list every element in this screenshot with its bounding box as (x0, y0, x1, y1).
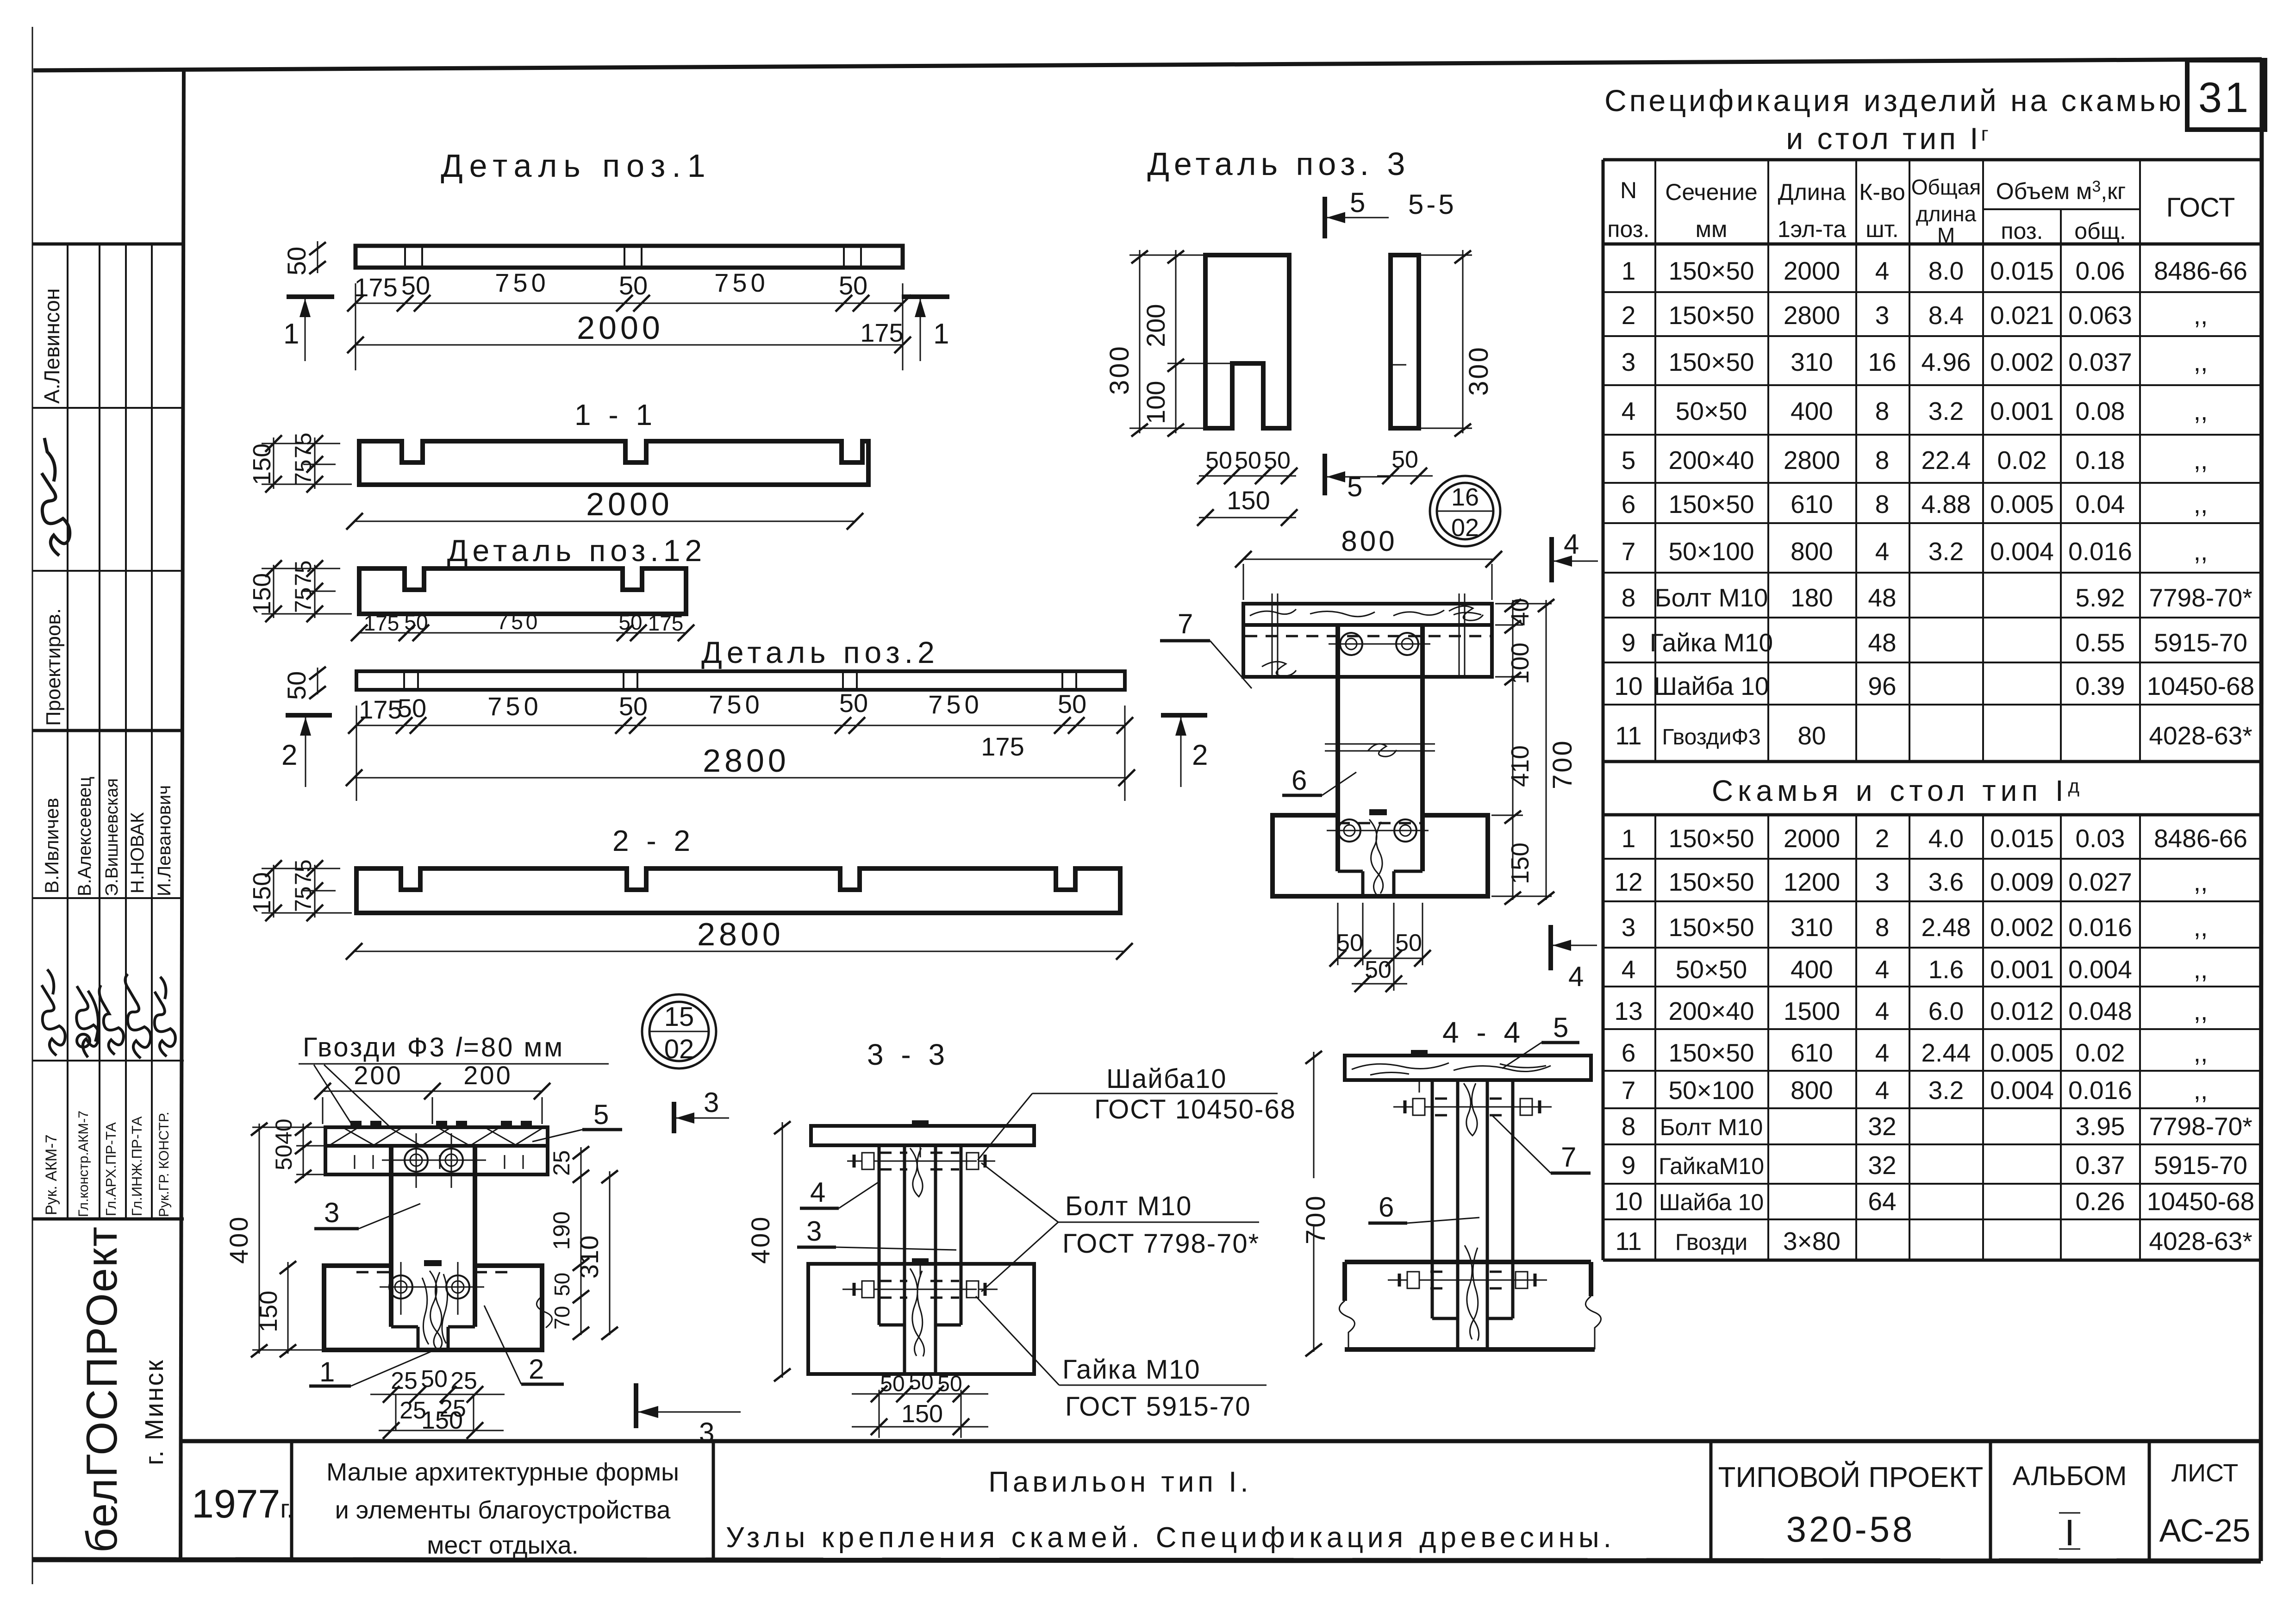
svg-text:3.2: 3.2 (1928, 1076, 1964, 1105)
svg-text:150: 150 (248, 443, 276, 485)
svg-text:10450-68: 10450-68 (2147, 1187, 2254, 1216)
svg-text:50: 50 (619, 271, 648, 300)
svg-text:4: 4 (1875, 1076, 1890, 1105)
svg-text:и элементы благоустройства: и элементы благоустройства (335, 1496, 671, 1524)
svg-text:0.002: 0.002 (1990, 348, 2054, 376)
ground beam 4-4 (1345, 1260, 1591, 1264)
svg-text:150×50: 150×50 (1668, 490, 1754, 518)
left dim 150 (273, 437, 275, 489)
svg-text:8486-66: 8486-66 (2154, 256, 2247, 285)
svg-text:4: 4 (1875, 537, 1890, 566)
dim 300 right of side view (1462, 250, 1464, 433)
sidebar column line x146 (67, 244, 69, 1219)
svg-text:15: 15 (664, 1002, 694, 1032)
svg-text:150: 150 (1506, 843, 1534, 884)
svg-text:Шайба 10: Шайба 10 (1653, 672, 1769, 700)
svg-text:0.004: 0.004 (1990, 1076, 2054, 1105)
dim line 2000 under 1-1 (355, 521, 855, 522)
bottom dims 50 50 50 under beam (1337, 903, 1339, 965)
svg-text:3: 3 (704, 1087, 719, 1118)
height dim 50 (317, 241, 318, 273)
svg-text:0.048: 0.048 (2068, 997, 2132, 1025)
svg-text:6: 6 (1291, 765, 1307, 796)
svg-text:3: 3 (699, 1417, 714, 1448)
svg-text:Узлы крепления скамей. Специф: Узлы крепления скамей. Спецификация древ… (726, 1522, 1616, 1554)
svg-text:48: 48 (1868, 628, 1896, 657)
svg-text:16: 16 (1868, 348, 1896, 376)
svg-text:750: 750 (495, 268, 549, 297)
plank pos.1 profile with notches (359, 441, 868, 485)
svg-text:2.44: 2.44 (1921, 1038, 1971, 1067)
svg-text:40: 40 (1506, 598, 1534, 626)
svg-text:0.021: 0.021 (1990, 301, 2054, 330)
svg-text:8: 8 (1875, 446, 1890, 475)
main frame top border (33, 59, 2262, 70)
svg-text:750: 750 (709, 690, 763, 719)
svg-text:Павильон тип I.: Павильон тип I. (988, 1466, 1252, 1498)
svg-text:0.26: 0.26 (2075, 1187, 2125, 1216)
svg-text:80: 80 (1797, 721, 1826, 750)
svg-text:75: 75 (290, 459, 316, 485)
svg-text:50: 50 (421, 1366, 448, 1393)
svg-text:Общая: Общая (1911, 175, 1981, 199)
upper bolt 3-3 (847, 1153, 995, 1169)
svg-text:0.005: 0.005 (1990, 1038, 2054, 1067)
left dim 400 3-3 (782, 1122, 783, 1378)
svg-text:3×80: 3×80 (1783, 1227, 1841, 1255)
svg-text:Малые архитектурные формы: Малые архитектурные формы (326, 1458, 679, 1486)
lower bolt circles node (389, 1275, 412, 1299)
svg-text:N: N (1620, 177, 1637, 203)
title block divider x4300 (1989, 1441, 1992, 1560)
svg-text:1: 1 (1622, 824, 1636, 853)
svg-text:4: 4 (810, 1177, 825, 1208)
sidebar column line x328 (151, 244, 153, 1219)
batten ticks pos.2 (403, 671, 405, 690)
svg-text:9: 9 (1622, 628, 1636, 657)
svg-text:0.015: 0.015 (1990, 824, 2054, 853)
svg-text:200: 200 (1141, 304, 1170, 347)
svg-text:70: 70 (550, 1306, 574, 1330)
svg-text:50: 50 (1391, 446, 1418, 473)
dim line pos.12 (359, 632, 686, 634)
svg-text:8.0: 8.0 (1928, 256, 1964, 285)
svg-text:610: 610 (1791, 1038, 1833, 1067)
title block divider x630 (290, 1441, 293, 1560)
upper bolt 4-4 (1393, 1099, 1552, 1115)
svg-text:Шайба10: Шайба10 (1106, 1064, 1227, 1094)
svg-text:150×50: 150×50 (1668, 913, 1754, 942)
section mark 2 right (1161, 713, 1207, 718)
vertical extensions 3-3 dims (879, 1390, 880, 1438)
svg-text:7798-70*: 7798-70* (2149, 1112, 2252, 1141)
svg-text:190: 190 (549, 1212, 574, 1250)
svg-text:10: 10 (1614, 1187, 1642, 1216)
sidebar divider y2291 (32, 1060, 184, 1062)
svg-text:,,: ,, (2194, 868, 2208, 896)
svg-text:200×40: 200×40 (1668, 446, 1754, 475)
svg-text:0.027: 0.027 (2068, 868, 2132, 896)
svg-text:50: 50 (839, 688, 868, 718)
svg-text:0.016: 0.016 (2068, 913, 2132, 942)
svg-text:5: 5 (1350, 187, 1365, 218)
svg-text:50×50: 50×50 (1676, 955, 1747, 984)
vertical extensions (395, 1394, 397, 1430)
title block divider x1541 (712, 1441, 715, 1560)
svg-text:2.48: 2.48 (1921, 913, 1971, 942)
svg-text:8.4: 8.4 (1928, 301, 1964, 330)
svg-text:ГОСТ 10450-68: ГОСТ 10450-68 (1094, 1094, 1296, 1124)
svg-text:3: 3 (806, 1216, 822, 1247)
svg-text:и стол тип Iг: и стол тип Iг (1786, 121, 1991, 156)
svg-text:3.95: 3.95 (2075, 1112, 2125, 1141)
svg-text:К-во: К-во (1859, 179, 1905, 205)
svg-text:11: 11 (1615, 721, 1641, 750)
svg-text:50: 50 (1365, 956, 1391, 983)
svg-text:Деталь поз.2: Деталь поз.2 (701, 635, 939, 669)
svg-text:г. Минск: г. Минск (139, 1359, 168, 1465)
svg-text:10: 10 (1614, 672, 1642, 700)
svg-text:25: 25 (450, 1368, 477, 1394)
svg-text:50: 50 (1205, 447, 1232, 474)
svg-text:25: 25 (549, 1150, 574, 1176)
svg-text:3: 3 (1622, 348, 1636, 376)
title block top border (181, 1439, 2261, 1443)
svg-text:400: 400 (1791, 955, 1833, 984)
sidebar signature col4 (125, 974, 150, 1058)
svg-text:175: 175 (981, 732, 1024, 761)
svg-text:0.002: 0.002 (1990, 913, 2054, 942)
svg-text:Гайка М10: Гайка М10 (1062, 1355, 1201, 1385)
svg-text:150×50: 150×50 (1668, 824, 1754, 853)
side view bottom dim 50 (1377, 475, 1433, 477)
svg-text:0.55: 0.55 (2075, 628, 2125, 657)
svg-text:400: 400 (746, 1215, 775, 1264)
svg-text:6.0: 6.0 (1928, 997, 1964, 1025)
sidebar signature col3 (99, 985, 123, 1055)
table 1 row lines (1603, 291, 2262, 293)
ground beam node (324, 1266, 542, 1350)
main frame right border (2261, 59, 2262, 1561)
table 1 bottom / band top (1603, 760, 2262, 763)
svg-text:8: 8 (1875, 397, 1890, 425)
ground beam (bottom board) (1273, 815, 1488, 896)
svg-text:И.Леванович: И.Леванович (154, 785, 175, 896)
sidebar signature col1 (42, 969, 65, 1056)
svg-text:50: 50 (1058, 689, 1086, 718)
svg-text:1: 1 (283, 318, 299, 350)
spec table column x4125 (1909, 160, 1910, 762)
left dim 150 2-2 (273, 865, 275, 918)
svg-text:50×50: 50×50 (1676, 397, 1747, 425)
svg-text:0.015: 0.015 (1990, 256, 2054, 285)
svg-text:310: 310 (1791, 348, 1833, 376)
svg-text:3.2: 3.2 (1928, 537, 1964, 566)
svg-text:300: 300 (1464, 345, 1494, 396)
upper bolt circles (1340, 633, 1362, 655)
svg-text:Проектиров.: Проектиров. (42, 608, 65, 726)
dashed top edge behind leg (1338, 822, 1423, 824)
svg-text:Гвозди: Гвозди (1675, 1229, 1747, 1255)
table 2 row lines (1603, 858, 2262, 860)
svg-text:Спецификация изделий на скам: Спецификация изделий на скамью (1604, 83, 2184, 118)
svg-text:0.004: 0.004 (1990, 537, 2054, 566)
svg-text:2800: 2800 (697, 916, 784, 952)
svg-text:200: 200 (354, 1061, 402, 1090)
svg-text:5: 5 (593, 1099, 609, 1130)
svg-text:Н.НОВАК: Н.НОВАК (127, 812, 148, 893)
svg-text:50: 50 (271, 1144, 297, 1170)
svg-text:700: 700 (1301, 1194, 1331, 1244)
legs 4-4 (1431, 1080, 1434, 1318)
svg-text:ГОСТ: ГОСТ (2166, 193, 2235, 223)
svg-text:0.08: 0.08 (2075, 397, 2125, 425)
tongue sides (417, 1327, 420, 1350)
svg-text:2: 2 (1875, 824, 1890, 853)
svg-text:150: 150 (255, 1291, 282, 1332)
section mark 2 left (286, 713, 332, 718)
pos.7 board under band (325, 1146, 548, 1174)
svg-text:0.016: 0.016 (2068, 1076, 2132, 1105)
title block divider x4643 (2148, 1441, 2151, 1560)
svg-text:3.6: 3.6 (1928, 868, 1964, 896)
svg-text:4: 4 (1622, 955, 1636, 984)
svg-text:0.18: 0.18 (2075, 446, 2125, 475)
svg-text:5: 5 (1347, 471, 1362, 502)
svg-text:Гл.констр.АКМ-7: Гл.констр.АКМ-7 (76, 1111, 91, 1217)
svg-text:1977г.: 1977г. (192, 1482, 293, 1526)
svg-text:50: 50 (550, 1273, 574, 1296)
svg-text:мест отдыха.: мест отдыха. (427, 1531, 578, 1559)
svg-text:0.02: 0.02 (1997, 446, 2046, 475)
svg-text:Рук. АКМ-7: Рук. АКМ-7 (43, 1135, 60, 1215)
batten tick pair right (843, 246, 845, 268)
svg-text:1эл-та: 1эл-та (1778, 216, 1846, 242)
svg-text:поз.: поз. (2001, 218, 2043, 244)
svg-text:4: 4 (1875, 256, 1890, 285)
hidden dashed line in pos.7 (1245, 635, 1491, 637)
sidebar divider y1233 (32, 570, 184, 572)
svg-text:175: 175 (648, 611, 684, 635)
svg-text:Болт М10: Болт М10 (1654, 583, 1768, 612)
svg-text:0.004: 0.004 (2068, 955, 2132, 984)
svg-text:175: 175 (354, 273, 397, 302)
svg-text:13: 13 (1614, 997, 1642, 1025)
left dim 400 (259, 1124, 260, 1354)
nail leader lines (314, 1065, 353, 1126)
svg-text:8: 8 (1622, 1112, 1636, 1141)
svg-text:ГОСТ 5915-70: ГОСТ 5915-70 (1065, 1392, 1251, 1422)
svg-text:22.4: 22.4 (1921, 446, 1971, 475)
svg-text:0.009: 0.009 (1990, 868, 2054, 896)
svg-text:8: 8 (1875, 913, 1890, 942)
seat plank 3-3 (811, 1126, 1034, 1145)
svg-text:150×50: 150×50 (1668, 1038, 1754, 1067)
svg-text:180: 180 (1791, 583, 1833, 612)
dim line 2800 pos.2 (354, 777, 1127, 779)
svg-text:11: 11 (1615, 1227, 1641, 1255)
spec table column x4452 (2060, 209, 2062, 762)
svg-text:,,: ,, (2194, 348, 2208, 376)
side view mid grain tick (1391, 364, 1406, 366)
svg-text:200×40: 200×40 (1668, 997, 1754, 1025)
svg-text:4: 4 (1622, 397, 1636, 425)
dim 200 200 (323, 1091, 542, 1092)
left dims 40/50 (303, 1124, 304, 1178)
svg-text:50: 50 (937, 1372, 962, 1396)
svg-text:А.Левинсон: А.Левинсон (40, 288, 64, 404)
pos.3 front view with bottom slot (1205, 255, 1289, 428)
beam right edge break (537, 1296, 552, 1328)
svg-text:шт.: шт. (1865, 216, 1898, 242)
svg-text:0.02: 0.02 (2075, 1038, 2125, 1067)
dim 800 (1243, 559, 1494, 560)
spec table outer border (1602, 160, 1605, 1260)
washer on seat (912, 1120, 929, 1126)
svg-text:50: 50 (404, 610, 428, 634)
height dim 50 pos.2 (317, 668, 318, 694)
svg-text:750: 750 (497, 610, 541, 634)
svg-text:0.04: 0.04 (2075, 490, 2125, 518)
svg-text:Гл.АРХ.ПР-ТА: Гл.АРХ.ПР-ТА (103, 1122, 119, 1216)
svg-text:Рук.ГР. КОНСТР.: Рук.ГР. КОНСТР. (156, 1112, 172, 1217)
left dim 75 75 pos.12 (314, 565, 316, 618)
bottom dim 150 pos.3 (1199, 517, 1296, 518)
marker circle 15/02 (642, 994, 716, 1068)
page trim thin line left (32, 27, 33, 1584)
svg-text:02: 02 (1451, 514, 1479, 542)
washer on beam top (1369, 809, 1387, 815)
svg-text:750: 750 (928, 690, 982, 719)
svg-text:10450-68: 10450-68 (2147, 672, 2254, 700)
tongue grain (422, 1271, 448, 1349)
svg-text:ГОСТ 7798-70*: ГОСТ 7798-70* (1062, 1229, 1260, 1259)
section mark 5 top (1323, 197, 1327, 238)
svg-text:0.001: 0.001 (1990, 955, 2054, 984)
marker circle 16/02 (1430, 476, 1500, 546)
svg-text:3.2: 3.2 (1928, 397, 1964, 425)
svg-text:5-5: 5-5 (1408, 189, 1457, 220)
sidebar divider y2633 (32, 1218, 184, 1221)
washer on top of tongue (424, 1260, 442, 1266)
center leg grain 4-4 (1464, 1083, 1479, 1341)
svg-text:2: 2 (1622, 301, 1636, 330)
leg break mark (1325, 743, 1435, 745)
spec table column x4284 (1982, 160, 1984, 762)
svg-text:7: 7 (1561, 1142, 1576, 1173)
svg-text:,,: ,, (2194, 913, 2208, 942)
svg-text:1: 1 (319, 1356, 335, 1387)
svg-text:,,: ,, (2194, 997, 2208, 1025)
svg-text:50: 50 (398, 693, 426, 723)
svg-text:50: 50 (401, 271, 430, 300)
leg boards 3-3 (878, 1145, 881, 1325)
dashed step line (391, 1325, 418, 1329)
svg-text:50: 50 (282, 671, 311, 700)
svg-text:0.03: 0.03 (2075, 824, 2125, 853)
right dim 700 (1546, 600, 1547, 900)
svg-text:Деталь поз.1: Деталь поз.1 (441, 148, 712, 184)
leg board node (389, 1147, 393, 1327)
svg-text:50: 50 (839, 271, 867, 300)
section mark 1 right (902, 294, 949, 299)
svg-text:,,: ,, (2194, 397, 2208, 425)
svg-text:16: 16 (1451, 483, 1479, 511)
svg-text:50: 50 (618, 610, 642, 634)
svg-text:поз.: поз. (1607, 216, 1649, 242)
grain squiggles seat band (1250, 609, 1481, 617)
washer on seat 4-4 (1411, 1050, 1428, 1056)
svg-text:мм: мм (1696, 216, 1728, 242)
board pos.7 under seat (1243, 625, 1492, 677)
svg-text:50: 50 (1235, 447, 1261, 474)
svg-text:7: 7 (1622, 1076, 1636, 1105)
svg-text:Гвозди Ф3 l=80 мм: Гвозди Ф3 l=80 мм (303, 1032, 564, 1062)
svg-text:5915-70: 5915-70 (2154, 1151, 2247, 1180)
batten tick pair middle (624, 246, 625, 268)
lower bolt 3-3 (842, 1281, 998, 1298)
section mark 3 bottom (634, 1383, 638, 1428)
pos.3 side view (1391, 255, 1419, 428)
svg-text:1500: 1500 (1784, 997, 1840, 1025)
svg-text:2000: 2000 (1784, 824, 1840, 853)
svg-text:4: 4 (1875, 997, 1890, 1025)
svg-text:1200: 1200 (1784, 868, 1840, 896)
svg-text:общ.: общ. (2074, 218, 2126, 244)
svg-text:64: 64 (1868, 1187, 1896, 1216)
svg-text:М: М (1937, 223, 1955, 247)
svg-text:0.016: 0.016 (2068, 537, 2132, 566)
svg-text:4: 4 (1875, 1038, 1890, 1067)
svg-text:150: 150 (248, 872, 276, 914)
spec table column x4010 (1855, 160, 1857, 762)
svg-text:,,: ,, (2194, 301, 2208, 330)
svg-text:75: 75 (290, 560, 316, 586)
left dim 700 4-4 (1313, 1052, 1315, 1178)
svg-text:150×50: 150×50 (1668, 256, 1754, 285)
section mark 4 bottom (1548, 925, 1553, 970)
svg-text:4028-63*: 4028-63* (2149, 721, 2252, 750)
svg-text:50×100: 50×100 (1668, 1076, 1754, 1105)
lower bolt circles (1338, 819, 1360, 842)
svg-text:50: 50 (282, 247, 311, 275)
svg-text:,,: ,, (2194, 446, 2208, 475)
svg-text:4028-63*: 4028-63* (2149, 1227, 2252, 1255)
section mark 4 top (1549, 537, 1554, 582)
svg-text:150×50: 150×50 (1668, 301, 1754, 330)
svg-text:1 - 1: 1 - 1 (574, 398, 657, 431)
svg-text:300: 300 (1104, 344, 1135, 395)
svg-text:4.0: 4.0 (1928, 824, 1964, 853)
svg-text:Объем м3,кг: Объем м3,кг (1996, 178, 2126, 204)
svg-text:7: 7 (1178, 608, 1193, 639)
vertical bolt line right (1459, 593, 1460, 677)
main frame bottom border (32, 1560, 2261, 1561)
spec table sub-header line under Объем (1983, 208, 2140, 210)
svg-text:750: 750 (714, 268, 768, 297)
svg-text:4: 4 (1875, 955, 1890, 984)
svg-text:310: 310 (1791, 913, 1833, 942)
dim 200/100 left (1175, 250, 1177, 433)
left extension stubs node (252, 1127, 324, 1128)
svg-text:2000: 2000 (1784, 256, 1840, 285)
svg-text:,,: ,, (2194, 955, 2208, 984)
svg-text:75: 75 (290, 859, 316, 885)
hidden edge dashes beside leg (356, 1271, 391, 1274)
svg-text:410: 410 (1506, 745, 1534, 787)
svg-text:96: 96 (1868, 672, 1896, 700)
svg-text:12: 12 (1614, 868, 1642, 896)
